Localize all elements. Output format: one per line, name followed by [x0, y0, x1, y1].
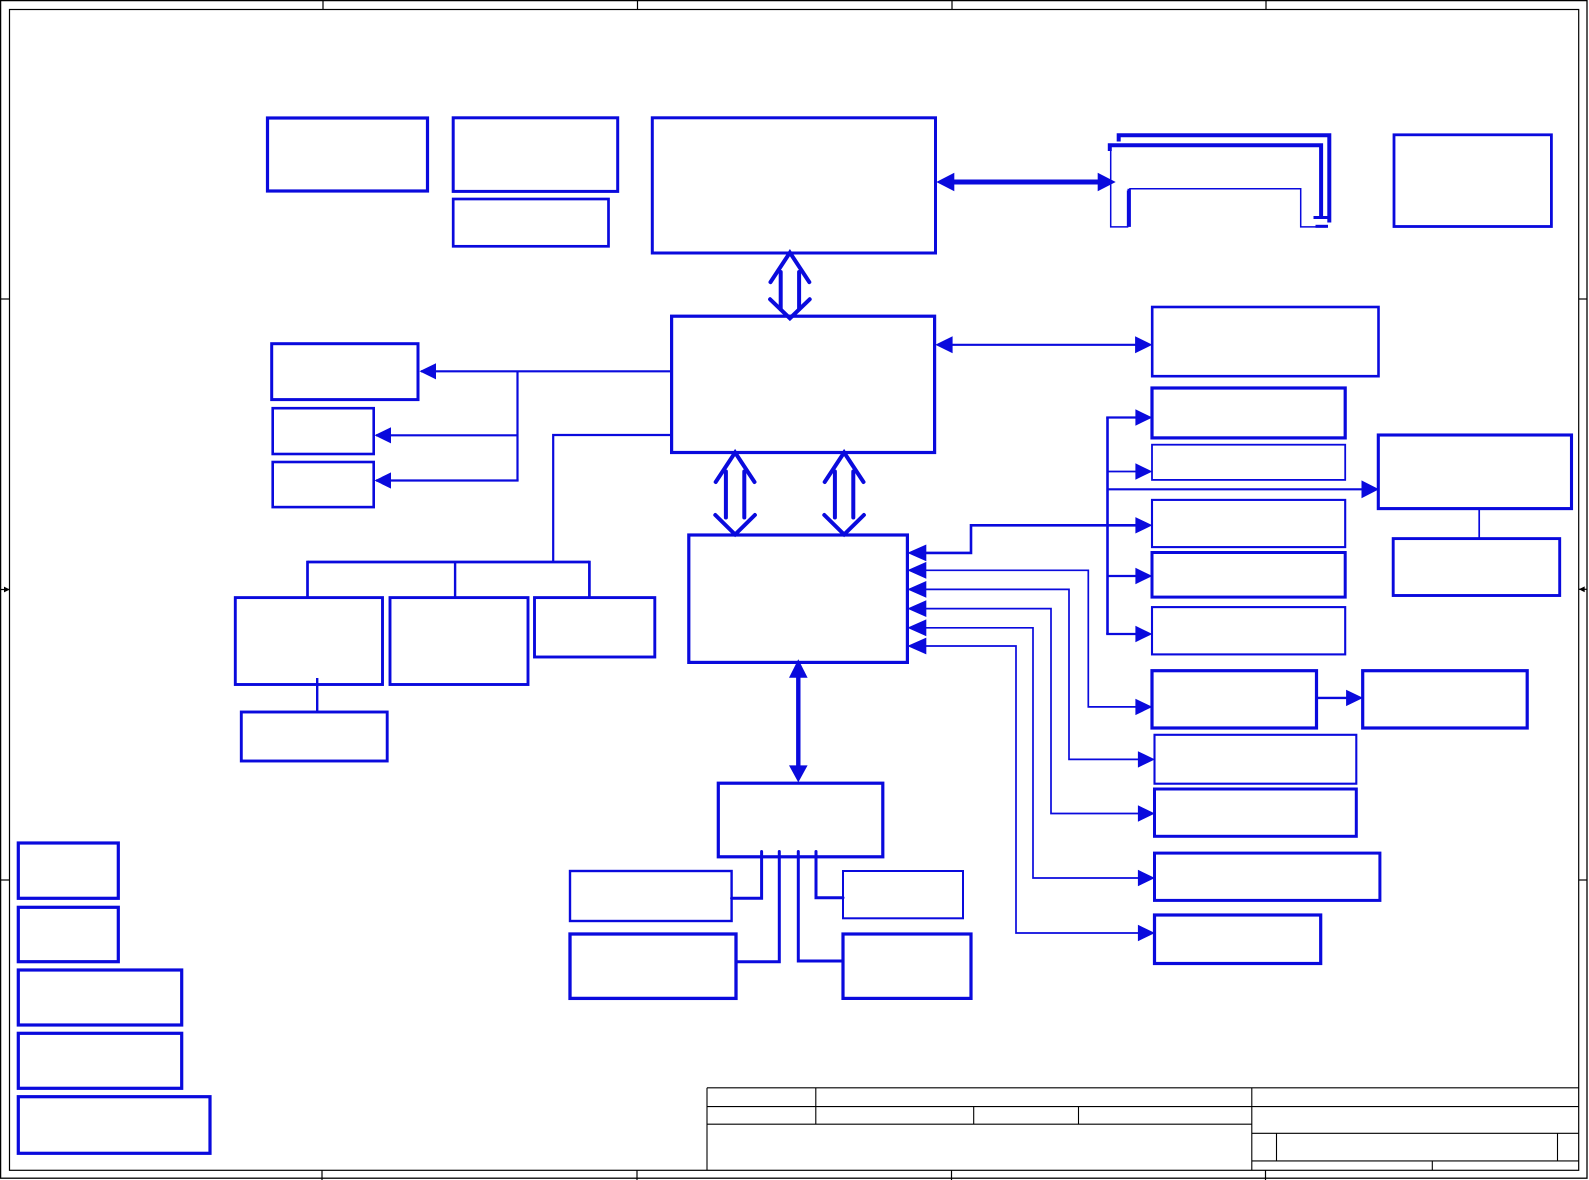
wire M line5 to R9 [923, 628, 1140, 878]
outline double arrow D to M left [715, 453, 755, 535]
arrowhead into R0 [1135, 336, 1152, 353]
arrowhead into C from memory [936, 173, 954, 192]
trunk vertical right column [1106, 418, 1109, 635]
branch to R1 [1106, 416, 1137, 418]
arrowhead into R10 [1138, 925, 1155, 941]
block R6r [1363, 671, 1528, 728]
stub N to O1 [732, 852, 762, 899]
memory socket foot bar 1 [1314, 216, 1328, 219]
wire branch vertical x517 [516, 371, 518, 480]
block O2 [570, 934, 736, 998]
bottom border tick 3 [951, 1170, 953, 1180]
right border tick 1 [1579, 298, 1588, 300]
branch long to P [1108, 488, 1364, 490]
wire D to R0 [950, 344, 1137, 346]
block R6 [1152, 671, 1317, 728]
block J [241, 712, 387, 761]
arrowhead into R9 [1138, 870, 1155, 886]
wire R6 to R6r [1317, 697, 1349, 699]
block Q [1393, 539, 1560, 596]
block O1 [570, 871, 732, 921]
branch to R2 [1108, 471, 1138, 473]
wire to G [376, 479, 519, 481]
block D (north bridge) [672, 316, 935, 452]
connector H to J [316, 678, 318, 712]
title block [707, 1088, 1579, 1171]
arrowhead into D from R0 [935, 336, 952, 353]
block S3 [18, 970, 181, 1025]
block R9 [1155, 853, 1380, 900]
memory socket thick line 1 [1119, 135, 1330, 222]
memory socket thick line 2 [1110, 145, 1321, 216]
tree drop to I [454, 562, 456, 598]
arrowhead into R3 [1135, 517, 1152, 533]
block R0 (right of D) [1152, 307, 1378, 376]
block O4 [843, 934, 971, 998]
left border tick 1 [0, 298, 10, 300]
arrowhead into R1 [1135, 409, 1152, 425]
top border tick 1 [322, 0, 324, 10]
block S1 (bottom left stack) [18, 843, 118, 898]
block R4 [1152, 553, 1345, 598]
arrowheads into M right edge [907, 545, 926, 562]
left border center arrow [0, 587, 10, 593]
bottom border tick 4 [1265, 1170, 1267, 1180]
wire D left to tree [553, 435, 671, 562]
top border tick 3 [951, 0, 953, 10]
double arrow M to N [789, 659, 808, 782]
arrowhead into R6r [1346, 690, 1363, 706]
block F [273, 408, 374, 454]
top border tick 4 [1265, 0, 1267, 10]
wire D to E [421, 370, 672, 372]
block H [235, 598, 382, 685]
block A (top left) [268, 118, 428, 191]
block S2 [18, 907, 118, 961]
block I [390, 598, 528, 685]
left border tick 2 [0, 879, 10, 881]
bottom border tick 2 [636, 1170, 638, 1180]
outline double arrow D to M right [824, 453, 864, 535]
block P [1378, 435, 1571, 509]
arrowhead into E [420, 363, 437, 379]
bottom border tick 1 [321, 1170, 323, 1180]
block R10 [1155, 915, 1321, 964]
block B [453, 118, 618, 192]
block S5 [18, 1097, 210, 1154]
arrowhead into G [375, 472, 392, 488]
right border tick 2 [1579, 879, 1588, 881]
stub N to O2 [736, 852, 779, 962]
arrowhead into R2 [1135, 463, 1152, 479]
block N [718, 783, 883, 857]
memory socket foot bar 2 [1316, 225, 1329, 228]
block K [535, 598, 655, 657]
block S4 [18, 1033, 181, 1088]
block R8 [1155, 789, 1357, 836]
stub N to O3 [816, 852, 843, 898]
arrowhead into R6 [1135, 699, 1152, 715]
branch to R5 [1106, 633, 1137, 635]
block R2 [1152, 445, 1345, 480]
arrowhead into R7 [1138, 751, 1155, 767]
arrowhead into P [1362, 480, 1380, 498]
arrowhead into R8 [1138, 805, 1155, 821]
top border tick 2 [637, 0, 639, 10]
wire M line6 to R10 [923, 646, 1140, 933]
tree horizontal [308, 561, 590, 564]
block G [273, 462, 374, 507]
wire M line1 to R3 [923, 525, 1137, 553]
tree drop to H [306, 561, 309, 598]
right border center arrow [1579, 586, 1588, 592]
block R1 [1152, 388, 1345, 438]
arrowhead into memory socket [1098, 173, 1116, 192]
block O3 [843, 871, 963, 918]
memory socket inner top line [1129, 189, 1326, 227]
block E [272, 344, 418, 400]
outline double arrow C to D [770, 253, 810, 319]
arrowhead into R4 [1135, 568, 1152, 584]
stub N to O4 [798, 852, 843, 962]
block C (CPU) [652, 118, 935, 253]
block R7 [1155, 735, 1357, 784]
wire to F [376, 434, 518, 436]
block B2 [453, 199, 608, 246]
arrowhead into F [375, 427, 392, 443]
wire M line4 to R8 [923, 609, 1140, 814]
connector P to Q [1478, 509, 1480, 539]
memory socket thin outline [1111, 145, 1128, 227]
arrowhead into R5 [1135, 626, 1152, 642]
wire M line2 to R6 [923, 570, 1137, 707]
thick arrow C to memory shaft [950, 180, 1101, 185]
branch to R4 [1108, 575, 1138, 577]
block TR (top right) [1394, 135, 1551, 227]
block R3 [1152, 500, 1345, 547]
block R5 [1152, 607, 1345, 654]
tree drop to K [588, 561, 591, 598]
block M (south bridge) [689, 535, 908, 662]
wire M line3 to R7 [923, 589, 1140, 759]
memory socket inner thick post [1127, 189, 1130, 227]
